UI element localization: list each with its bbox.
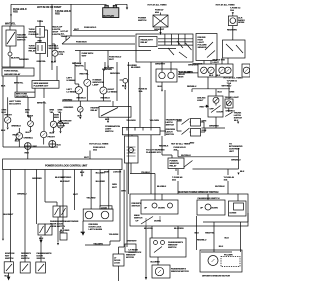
svg-text:RELAY: RELAY: [29, 50, 37, 53]
svg-text:GRN: GRN: [202, 120, 207, 122]
svg-text:BLK: BLK: [78, 115, 83, 117]
svg-text:SWITCH: SWITCH: [138, 20, 147, 22]
svg-text:POWER DOOR LOCK CONTROL UNIT: POWER DOOR LOCK CONTROL UNIT: [45, 164, 88, 167]
svg-text:BLK: BLK: [50, 133, 55, 135]
svg-text:WHT: WHT: [73, 194, 79, 196]
svg-text:GRN/RED: GRN/RED: [64, 107, 74, 109]
svg-text:BLK: BLK: [81, 232, 86, 234]
svg-text:RELAY: RELAY: [91, 109, 99, 112]
svg-text:HOT IN ON OR START: HOT IN ON OR START: [37, 6, 62, 9]
svg-text:BLU/RED: BLU/RED: [96, 181, 106, 183]
svg-text:RED: RED: [55, 13, 60, 16]
svg-text:TURN: TURN: [37, 21, 43, 23]
svg-text:WINDOW MOTOR: WINDOW MOTOR: [171, 271, 189, 273]
svg-text:GRN/RED: GRN/RED: [209, 126, 219, 128]
svg-text:FLASHER: FLASHER: [29, 33, 39, 36]
svg-text:BLU: BLU: [218, 92, 223, 94]
svg-text:MOTOR: MOTOR: [126, 257, 134, 259]
svg-text:YEL/GRN: YEL/GRN: [109, 234, 119, 236]
svg-text:PASSENGER SWITCH: PASSENGER SWITCH: [198, 197, 220, 200]
svg-text:RED/YEL: RED/YEL: [75, 66, 85, 68]
svg-text:BLK: BLK: [105, 119, 110, 121]
svg-text:SWITCH: SWITCH: [37, 258, 46, 260]
svg-text:FUSE HOLD: FUSE HOLD: [84, 27, 97, 29]
svg-text:BLK: BLK: [219, 246, 224, 248]
svg-text:GRN/RED: GRN/RED: [32, 178, 42, 180]
svg-text:SWITCH: SWITCH: [132, 206, 141, 208]
svg-text:BLK: BLK: [234, 120, 239, 122]
svg-text:WHT/BLU: WHT/BLU: [181, 155, 191, 157]
svg-text:GRN: GRN: [121, 191, 126, 193]
svg-text:LOCK: LOCK: [114, 262, 120, 264]
svg-text:BLU: BLU: [195, 233, 200, 235]
svg-text:RED/BLK: RED/BLK: [72, 63, 82, 65]
svg-text:FLASHER CKT: FLASHER CKT: [34, 85, 49, 88]
svg-text:WHT/BLU: WHT/BLU: [222, 86, 232, 88]
svg-text:TIMES: TIMES: [61, 36, 68, 38]
svg-text:SWITCH: SWITCH: [166, 134, 175, 136]
svg-text:RED/ORN: RED/ORN: [110, 73, 120, 75]
svg-text:RED/YEL: RED/YEL: [80, 74, 90, 76]
svg-text:WHT/YEL: WHT/YEL: [5, 23, 16, 26]
svg-text:LOCK: LOCK: [101, 207, 107, 209]
svg-text:BLK: BLK: [1, 130, 6, 132]
svg-text:RED/BLU: RED/BLU: [77, 98, 87, 100]
svg-text:HOT AT ALL TIMES: HOT AT ALL TIMES: [89, 142, 109, 145]
svg-text:UNIT: UNIT: [229, 151, 235, 153]
svg-text:SWITCH: SWITCH: [105, 131, 114, 133]
svg-text:TURN SIGNAL: TURN SIGNAL: [4, 70, 19, 73]
svg-text:30A: 30A: [174, 148, 178, 151]
svg-text:BLU: BLU: [225, 238, 230, 240]
svg-text:RED/BLU: RED/BLU: [197, 240, 207, 242]
svg-text:FRONT: FRONT: [5, 115, 13, 117]
svg-text:GRN/RED: GRN/RED: [19, 59, 29, 61]
svg-text:RED: RED: [38, 40, 43, 42]
svg-text:40A: 40A: [155, 11, 159, 14]
svg-text:YEL/BLK: YEL/BLK: [141, 172, 150, 174]
svg-text:WHT/RED: WHT/RED: [61, 177, 71, 179]
svg-text:LATCH ASSM: LATCH ASSM: [89, 228, 103, 231]
svg-text:GRN: GRN: [202, 130, 207, 132]
svg-text:SIG LIGHTS: SIG LIGHTS: [16, 96, 28, 98]
svg-text:BRN/YEL: BRN/YEL: [14, 83, 24, 85]
svg-text:LITE: LITE: [59, 54, 64, 56]
svg-text:HOT AT ALL TIMES: HOT AT ALL TIMES: [148, 3, 168, 6]
svg-text:LAMP: LAMP: [93, 83, 100, 86]
svg-text:YEL/RED: YEL/RED: [86, 197, 96, 199]
svg-text:RED/BLU: RED/BLU: [187, 86, 197, 88]
svg-text:HORN: HORN: [238, 22, 245, 24]
svg-text:RED: RED: [25, 152, 30, 154]
svg-text:WHT: WHT: [82, 56, 88, 58]
svg-text:RED: RED: [13, 11, 18, 14]
svg-text:30A: 30A: [139, 90, 143, 93]
svg-text:RELAY: RELAY: [141, 41, 149, 44]
svg-text:4WD: 4WD: [190, 142, 195, 145]
svg-text:RED/ORN: RED/ORN: [102, 69, 112, 71]
svg-text:BLK: BLK: [80, 172, 85, 174]
svg-text:BLK: BLK: [26, 132, 31, 134]
svg-text:HOT AT ALL TIMES: HOT AT ALL TIMES: [171, 143, 191, 146]
svg-text:KNOB SWITCH: KNOB SWITCH: [50, 226, 65, 228]
svg-text:GRN/YEL: GRN/YEL: [37, 61, 47, 63]
svg-text:SWITCH: SWITCH: [168, 247, 177, 249]
svg-text:YEL/GRN: YEL/GRN: [93, 243, 103, 245]
svg-text:LIGHT: LIGHT: [197, 100, 204, 102]
svg-text:GRN/BLU: GRN/BLU: [231, 159, 241, 161]
svg-text:BLK: BLK: [1, 86, 6, 88]
svg-text:DOWN: DOWN: [211, 208, 218, 210]
svg-text:REAR: REAR: [13, 134, 19, 137]
svg-text:MKR: MKR: [54, 117, 59, 119]
svg-text:TRANSPONDER: TRANSPONDER: [62, 220, 79, 223]
svg-text:HIGH: HIGH: [178, 77, 184, 79]
svg-text:BLK: BLK: [240, 171, 245, 173]
svg-text:MASTER POWER WINDOW SWITCH: MASTER POWER WINDOW SWITCH: [178, 191, 219, 194]
svg-text:RED/BLU: RED/BLU: [101, 98, 111, 100]
svg-text:REAR: REAR: [27, 114, 33, 117]
svg-text:RED/GRN: RED/GRN: [227, 30, 237, 32]
svg-text:RED: RED: [200, 107, 205, 109]
svg-text:DOWN: DOWN: [158, 208, 165, 210]
svg-text:GRN/RED: GRN/RED: [63, 100, 73, 102]
svg-text:BRN/YEL: BRN/YEL: [37, 103, 47, 105]
svg-text:SWITCH: SWITCH: [166, 124, 175, 126]
svg-text:ORN/BLU: ORN/BLU: [24, 138, 34, 140]
svg-text:SWITCH: SWITCH: [17, 40, 26, 42]
svg-text:BATTERY: BATTERY: [103, 15, 114, 18]
svg-text:RED: RED: [33, 146, 38, 148]
svg-text:10A: 10A: [230, 9, 234, 12]
svg-text:OFF: OFF: [210, 109, 215, 111]
svg-text:20A: 20A: [93, 148, 97, 151]
svg-text:DRIVER'S WINDOW MOTOR: DRIVER'S WINDOW MOTOR: [202, 275, 230, 277]
svg-text:7.5A: 7.5A: [227, 82, 232, 85]
svg-text:BRN/BLK: BRN/BLK: [12, 125, 22, 127]
svg-text:HEADLIGHT: HEADLIGHT: [141, 38, 154, 41]
svg-text:BLU/RED: BLU/RED: [131, 67, 141, 69]
svg-text:GRN/WHT: GRN/WHT: [188, 65, 199, 67]
svg-text:YEL/GRN: YEL/GRN: [150, 120, 160, 122]
svg-text:BLK: BLK: [209, 75, 214, 77]
svg-text:RED/BLK: RED/BLK: [159, 145, 169, 147]
svg-text:SIG LIGHTS: SIG LIGHTS: [9, 103, 21, 105]
svg-text:BLU/BLK: BLU/BLK: [157, 186, 167, 188]
svg-text:BLK: BLK: [39, 238, 44, 240]
svg-text:BLK: BLK: [216, 75, 221, 77]
svg-text:RED/YEL: RED/YEL: [205, 233, 215, 235]
svg-text:BLK: BLK: [5, 276, 10, 278]
svg-text:GRN: GRN: [230, 92, 235, 94]
svg-text:FUSE BOX: FUSE BOX: [76, 42, 87, 44]
svg-text:GRN/WHT: GRN/WHT: [155, 64, 166, 66]
svg-text:LO BEAM: LO BEAM: [67, 90, 77, 93]
svg-text:DOWN: DOWN: [230, 213, 237, 215]
svg-text:BLK: BLK: [57, 144, 62, 146]
svg-text:SIDE MARKER: SIDE MARKER: [34, 82, 49, 85]
svg-text:HAZARD RELAY: HAZARD RELAY: [4, 73, 21, 76]
svg-text:BLU/ORN: BLU/ORN: [174, 228, 184, 230]
svg-text:WHT: WHT: [112, 187, 118, 189]
svg-text:BLK/RED: BLK/RED: [60, 230, 70, 232]
svg-text:BLU: BLU: [2, 112, 7, 114]
svg-text:ORN/BLU: ORN/BLU: [17, 194, 27, 196]
svg-text:HOT AT ALL TIMES: HOT AT ALL TIMES: [224, 76, 244, 79]
svg-text:BLK: BLK: [51, 62, 56, 64]
svg-text:GRN/WHT: GRN/WHT: [154, 29, 165, 31]
svg-text:BLK/WHT: BLK/WHT: [60, 181, 70, 183]
svg-text:WHT/GRN: WHT/GRN: [49, 48, 60, 50]
svg-text:SWITCH: SWITCH: [134, 218, 143, 220]
svg-text:DOOR: DOOR: [217, 112, 224, 114]
svg-text:BLK: BLK: [15, 139, 20, 141]
svg-text:LIGHT: LIGHT: [213, 62, 220, 64]
svg-text:WHT/BLK: WHT/BLK: [215, 186, 225, 188]
svg-text:BLK: BLK: [158, 86, 163, 88]
svg-text:BLU/RED: BLU/RED: [151, 261, 161, 263]
svg-text:40A: 40A: [172, 179, 176, 182]
svg-text:FRONT: FRONT: [48, 137, 56, 139]
svg-text:RELAY: RELAY: [170, 164, 178, 167]
svg-text:WHT: WHT: [109, 59, 115, 61]
svg-text:GRN: GRN: [112, 184, 117, 186]
svg-text:WHT: WHT: [84, 157, 90, 159]
svg-text:BLU/WHT: BLU/WHT: [96, 172, 106, 174]
svg-text:TRUNK LIGHT: TRUNK LIGHT: [225, 97, 240, 99]
svg-text:SWITCH: SWITCH: [5, 258, 14, 260]
svg-text:HOT AT ALL TIMES: HOT AT ALL TIMES: [216, 3, 236, 6]
svg-text:WHT: WHT: [74, 29, 80, 31]
svg-text:SWITCH: SWITCH: [21, 258, 30, 260]
svg-text:BLK: BLK: [122, 86, 127, 88]
svg-text:SENSOR: SENSOR: [198, 47, 207, 49]
svg-text:YEL/GRN: YEL/GRN: [126, 120, 136, 122]
svg-text:BLK/WHT: BLK/WHT: [4, 214, 14, 216]
svg-text:HI BEAM: HI BEAM: [67, 79, 76, 82]
svg-text:PULSER: PULSER: [224, 254, 233, 256]
svg-text:BLU/YEL: BLU/YEL: [144, 228, 154, 230]
svg-text:10A: 10A: [224, 179, 228, 182]
svg-text:L/DOOR: L/DOOR: [113, 172, 122, 174]
svg-text:GRN/WHT: GRN/WHT: [127, 240, 138, 242]
svg-text:FLASHER SYS: FLASHER SYS: [146, 151, 161, 154]
svg-text:LO BEAM: LO BEAM: [108, 90, 118, 93]
